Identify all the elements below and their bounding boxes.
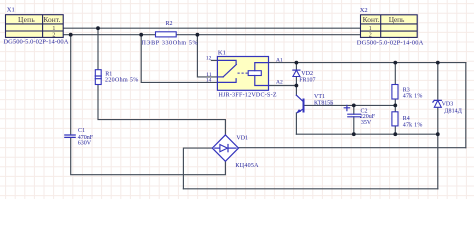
wire C1 top lead from rail2	[70, 35, 72, 135]
svg-text:12: 12	[206, 56, 212, 62]
diode VD2	[293, 70, 300, 76]
svg-text:R1: R1	[105, 72, 112, 78]
wire R1 top lead from rail1	[97, 28, 99, 69]
zener diode VD3	[433, 100, 441, 107]
node VD3 anode on ground net	[436, 132, 440, 136]
svg-text:КЦ405А: КЦ405А	[235, 163, 259, 169]
node C2 plus on base net	[352, 104, 356, 108]
node R3 top on plus net	[393, 61, 397, 65]
relay contact pin12 internal	[217, 60, 236, 64]
wire rail2 to relay pin 11	[197, 35, 217, 77]
transistor VT1	[296, 95, 303, 113]
svg-text:2: 2	[369, 32, 372, 38]
relay contact pin11 internal pivot	[217, 76, 223, 78]
svg-text:220Ohm 5%: 220Ohm 5%	[105, 78, 138, 84]
svg-text:VD1: VD1	[236, 136, 248, 142]
svg-text:K1: K1	[218, 50, 226, 57]
svg-text:FR107: FR107	[299, 77, 315, 83]
wire VD2 bottom lead	[295, 77, 297, 86]
bridge rectifier VD1	[212, 135, 238, 161]
wire bottom rail	[183, 188, 437, 190]
node C1 tap on rail2	[69, 33, 73, 37]
svg-text:Конт.: Конт.	[43, 15, 60, 24]
resistor R1	[95, 70, 101, 85]
svg-text:VD2: VD2	[301, 71, 313, 77]
wire R4 bottom lead	[394, 126, 396, 134]
connector X1	[6, 15, 64, 38]
relay actuator dashed link	[238, 72, 249, 74]
svg-text:1: 1	[52, 26, 55, 32]
wire VT1 collector lead	[295, 86, 297, 96]
wire R1 bottom to bridge top	[98, 85, 225, 136]
wire VT1 base net	[304, 104, 396, 106]
svg-text:A2: A2	[276, 80, 283, 86]
wire relay A1 to plus net	[269, 62, 466, 64]
wire C2 top lead	[353, 105, 355, 114]
svg-text:Цепь: Цепь	[389, 15, 405, 24]
svg-text:A1: A1	[276, 58, 283, 64]
connector X2	[361, 15, 418, 38]
svg-text:HJR-3FF-12VDC-S-Z: HJR-3FF-12VDC-S-Z	[219, 92, 277, 98]
resistor R4	[392, 112, 398, 126]
node divider middle on base net	[393, 104, 397, 108]
relay K1	[217, 57, 268, 91]
svg-text:47k 1%: 47k 1%	[403, 122, 423, 128]
wire rail X1 pin2 to X2 pin2	[63, 34, 360, 36]
svg-text:VD3: VD3	[442, 102, 454, 108]
wire relay A2 to VD2	[269, 85, 297, 87]
wire C1 bottom to bridge bottom	[71, 137, 226, 174]
svg-text:X2: X2	[360, 7, 368, 14]
node R1 tap on rail1	[96, 26, 100, 30]
relay coil	[248, 71, 261, 76]
svg-text:1: 1	[369, 26, 372, 32]
svg-text:220uF: 220uF	[360, 114, 376, 120]
capacitor C1	[65, 135, 75, 137]
node relay pin14 tap on rail2	[139, 33, 143, 37]
node C2 minus on ground net	[352, 132, 356, 136]
svg-text:X1: X1	[7, 6, 15, 13]
wire C2 bottom lead	[353, 117, 355, 134]
wire VT1 emitter lead to ground net	[295, 113, 297, 134]
node relay pin11 tap on rail2	[196, 33, 200, 37]
wire VD3 top lead	[437, 63, 439, 101]
wire bridge plus output	[239, 147, 466, 149]
svg-text:C1: C1	[78, 128, 85, 134]
svg-text:ПЭВР 330Ohm 5%: ПЭВР 330Ohm 5%	[142, 41, 198, 47]
wire rail X1 pin1 to X2 pin1	[63, 27, 360, 29]
wire R3 top lead	[394, 63, 396, 85]
node VD2 anode / VT1 collector	[295, 84, 299, 88]
relay coil A1 internal	[255, 63, 269, 71]
relay coil A2 internal	[255, 76, 269, 86]
wire VD2 top lead	[295, 63, 297, 71]
node R4 bottom on ground net	[393, 132, 397, 136]
svg-text:35V: 35V	[361, 120, 372, 126]
svg-text:Цепь: Цепь	[18, 15, 35, 24]
node VD2 cathode on plus net	[295, 61, 299, 65]
wire R3-R4 middle	[394, 99, 396, 112]
svg-text:47k 1%: 47k 1%	[403, 94, 423, 100]
resistor R3	[392, 85, 398, 100]
svg-text:630V: 630V	[78, 141, 92, 147]
wire bridge minus to bottom rail	[183, 148, 212, 189]
wire plus net right side down	[465, 63, 467, 148]
svg-text:КТ815Б: КТ815Б	[314, 100, 334, 106]
relay contact blade	[223, 65, 236, 77]
capacitor C2 polarized	[344, 105, 360, 116]
svg-text:Конт.: Конт.	[363, 15, 380, 24]
node VD3 cathode on plus net	[436, 61, 440, 65]
resistor R2	[156, 32, 177, 37]
svg-text:VT1: VT1	[314, 94, 325, 100]
svg-text:R3: R3	[403, 87, 410, 93]
svg-text:14: 14	[206, 77, 212, 83]
wire rail2 to relay pin 14	[141, 35, 217, 83]
wire ground net	[296, 133, 437, 135]
svg-text:R4: R4	[403, 116, 410, 122]
wire VD3 bottom lead to bottom rail	[437, 107, 439, 189]
svg-text:2: 2	[52, 32, 55, 38]
relay contact pin14 internal	[217, 79, 236, 83]
svg-text:DG500-5.0-02P-14-00A: DG500-5.0-02P-14-00A	[3, 39, 68, 46]
wire relay pin 12 stub	[211, 59, 217, 61]
svg-text:R2: R2	[166, 21, 173, 27]
svg-text:Д814Д: Д814Д	[444, 108, 461, 114]
svg-text:DG500-5.0-02P-14-00A: DG500-5.0-02P-14-00A	[357, 40, 424, 47]
